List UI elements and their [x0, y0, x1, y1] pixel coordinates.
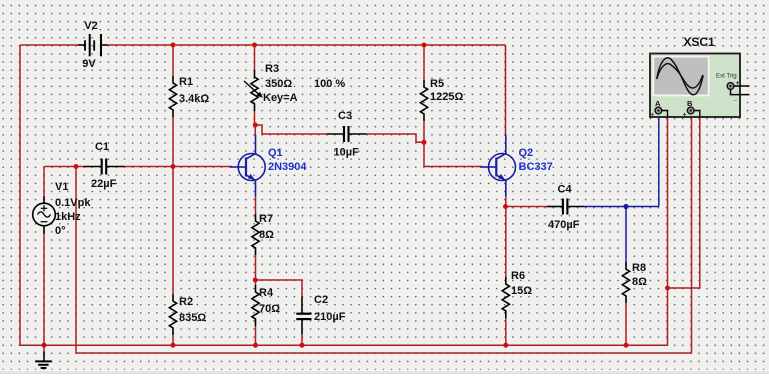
label C4	[558, 184, 573, 196]
wire scope B- to ground net	[668, 117, 700, 288]
label R4	[259, 287, 274, 299]
label Q2	[519, 147, 534, 159]
svg-text:_: _	[701, 112, 706, 118]
wire R5 branch	[423, 45, 425, 142]
value 1225	[430, 91, 463, 103]
resistor R5	[420, 80, 427, 121]
svg-text:835Ω: 835Ω	[179, 312, 206, 324]
resistor R7	[252, 214, 259, 255]
node ground junction	[42, 343, 47, 348]
wire Q1 emitter to R7	[255, 196, 257, 214]
node scope A- B- junction	[665, 286, 670, 291]
value 350	[265, 78, 292, 90]
value 10uF	[334, 147, 360, 159]
label Key=A	[263, 92, 298, 104]
value 9V	[82, 58, 96, 70]
svg-text:V2: V2	[84, 20, 97, 32]
node top rail R1 junction	[171, 43, 176, 48]
capacitor C3	[327, 126, 367, 142]
battery V2	[78, 34, 108, 56]
capacitor C1	[84, 159, 124, 175]
label Ext Trig	[716, 73, 737, 80]
svg-text:8Ω: 8Ω	[632, 276, 647, 288]
resistor R2	[169, 294, 176, 335]
label R2	[179, 296, 193, 308]
wire output node to R6	[505, 207, 507, 278]
svg-text:15Ω: 15Ω	[511, 285, 532, 297]
node C2 bottom junction	[300, 343, 305, 348]
oscilloscope XSC1	[650, 54, 740, 118]
svg-text:V1: V1	[55, 181, 68, 193]
value 8	[259, 229, 274, 241]
svg-text:470µF: 470µF	[548, 219, 580, 231]
value 3.4k	[179, 93, 209, 105]
resistor R8	[622, 262, 629, 303]
transistor Q2	[481, 135, 516, 197]
svg-text:C2: C2	[314, 294, 328, 306]
label V2	[84, 20, 97, 32]
svg-text:R6: R6	[511, 270, 525, 282]
wire bottom ground rail	[20, 117, 668, 345]
svg-text:R2: R2	[179, 296, 193, 308]
svg-text:Q2: Q2	[519, 147, 534, 159]
label R7	[259, 213, 273, 225]
svg-text:210µF: 210µF	[314, 311, 346, 323]
svg-text:XSC1: XSC1	[683, 35, 715, 49]
value 15	[511, 285, 532, 297]
label C1	[95, 141, 109, 153]
svg-text:22µF: 22µF	[91, 178, 117, 190]
value 210uF	[314, 311, 346, 323]
node R5 C3 junction	[422, 140, 427, 145]
wire emitter node to R4 and C2	[255, 280, 303, 297]
label R3	[265, 63, 279, 75]
svg-text:R5: R5	[430, 78, 444, 90]
wire left rail	[19, 45, 21, 345]
value 0.1Vpk	[55, 197, 91, 209]
node top rail R5 junction	[422, 43, 427, 48]
capacitor C2	[296, 297, 311, 335]
svg-text:100 %: 100 %	[314, 78, 345, 90]
node R1 R2 base junction	[171, 164, 176, 169]
svg-text:R3: R3	[265, 63, 279, 75]
wire V1 bottom lead	[43, 226, 45, 345]
svg-text:+: +	[651, 113, 655, 119]
label C3	[338, 110, 352, 122]
ground	[35, 345, 51, 368]
svg-text:_: _	[733, 95, 738, 102]
svg-text:2N3904: 2N3904	[268, 161, 307, 173]
svg-text:1225Ω: 1225Ω	[430, 91, 463, 103]
svg-text:BC337: BC337	[519, 161, 553, 173]
node R4 bottom junction	[253, 343, 258, 348]
svg-text:Key=A: Key=A	[263, 92, 298, 104]
node top rail R3 junction	[252, 43, 257, 48]
capacitor C4	[547, 199, 584, 215]
node input junction	[74, 164, 79, 169]
value 2N3904	[268, 161, 307, 173]
svg-text:0.1Vpk: 0.1Vpk	[55, 197, 91, 209]
source V1	[33, 203, 56, 226]
transistor Q1	[230, 135, 265, 197]
wire R5 node to Q2 base	[424, 142, 482, 166]
node C4 R8 scope-A junction	[623, 204, 628, 209]
label XSC1	[683, 35, 715, 49]
resistor R4	[252, 285, 259, 326]
wire R2 branch	[172, 167, 174, 346]
label R6	[511, 270, 525, 282]
wire C2 bottom	[301, 335, 303, 346]
value 22uF	[91, 178, 117, 190]
svg-text:3.4kΩ: 3.4kΩ	[179, 93, 209, 105]
wire output node to C4	[506, 206, 547, 208]
wire input-to-scope-B rail	[76, 117, 692, 353]
terminal Ext Trig pin	[727, 80, 749, 102]
wire input line	[44, 166, 232, 168]
svg-text:Q1: Q1	[268, 147, 283, 159]
wire R6 bottom	[505, 318, 507, 345]
wire R4 bottom	[255, 326, 257, 345]
svg-text:+: +	[683, 113, 687, 119]
value 8	[632, 276, 647, 288]
terminal scope channel A	[651, 99, 674, 119]
wire R3 branch	[254, 45, 256, 125]
value 0deg	[55, 225, 66, 237]
label Q1	[268, 147, 283, 159]
svg-text:0°: 0°	[55, 225, 66, 237]
node R8 bottom junction	[624, 343, 629, 348]
wire blue node to R8	[625, 207, 627, 263]
node Q1 collector junction	[253, 123, 258, 128]
node Q2 emitter junction	[503, 204, 508, 209]
wire R7 to emitter node	[255, 255, 257, 280]
wire Q2 emitter to output node	[505, 196, 507, 207]
wire C4 to scope A (blue net)	[584, 117, 659, 207]
svg-text:Ext Trig: Ext Trig	[716, 73, 737, 80]
svg-text:10µF: 10µF	[334, 147, 360, 159]
resistor R6	[502, 277, 509, 318]
svg-text:70Ω: 70Ω	[259, 303, 280, 315]
svg-text:350Ω: 350Ω	[265, 78, 292, 90]
wire scope A+ blue probe	[658, 117, 660, 120]
value BC337	[519, 161, 553, 173]
wire V1 top lead	[43, 167, 45, 204]
wire C3 to R5 node	[367, 134, 425, 142]
label C2	[314, 294, 328, 306]
svg-text:9V: 9V	[82, 58, 96, 70]
node Q1 emitter junction	[253, 278, 258, 283]
wire R8 bottom	[625, 303, 627, 345]
node R2 bottom junction	[171, 343, 176, 348]
svg-text:C3: C3	[338, 110, 352, 122]
label R5	[430, 78, 444, 90]
svg-text:_: _	[669, 112, 674, 118]
svg-text:R7: R7	[259, 213, 273, 225]
label R8	[632, 262, 646, 274]
svg-text:8Ω: 8Ω	[259, 229, 274, 241]
svg-text:C4: C4	[558, 184, 573, 196]
wire top power rail	[20, 44, 506, 46]
value 470uF	[548, 219, 580, 231]
node R6 bottom junction	[503, 343, 508, 348]
svg-text:R1: R1	[179, 76, 193, 88]
wire Q2 collector from rail	[505, 45, 507, 136]
potentiometer R3	[244, 70, 263, 111]
svg-text:R8: R8	[632, 262, 646, 274]
value 1kHz	[55, 211, 81, 223]
wire Q1 collector node jog to C3	[255, 125, 328, 136]
terminal scope channel B	[683, 99, 706, 119]
wire R1 branch	[172, 45, 174, 167]
label V1	[55, 181, 68, 193]
svg-text:C1: C1	[95, 141, 109, 153]
svg-text:R4: R4	[259, 287, 274, 299]
resistor R1	[169, 76, 176, 117]
label R1	[179, 76, 193, 88]
label 100 %	[314, 78, 345, 90]
value 835	[179, 312, 206, 324]
svg-text:1kHz: 1kHz	[55, 211, 81, 223]
value 70	[259, 303, 280, 315]
